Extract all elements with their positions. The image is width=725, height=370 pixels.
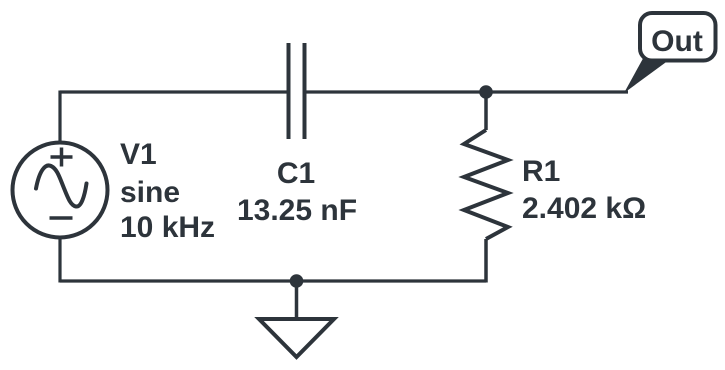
svg-text:sine: sine (120, 176, 180, 209)
svg-text:R1: R1 (522, 155, 560, 188)
svg-text:V1: V1 (120, 138, 157, 171)
svg-text:13.25 nF: 13.25 nF (237, 194, 357, 227)
svg-text:10 kHz: 10 kHz (120, 211, 215, 244)
svg-text:C1: C1 (277, 157, 315, 190)
svg-text:2.402 kΩ: 2.402 kΩ (522, 192, 646, 225)
svg-text:Out: Out (651, 25, 703, 58)
